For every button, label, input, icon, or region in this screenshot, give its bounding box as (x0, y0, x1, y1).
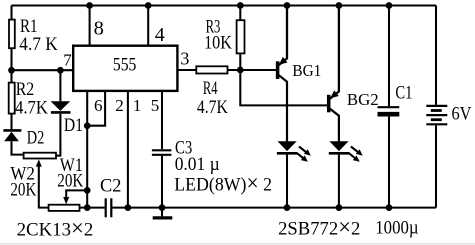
junction pin4 on top rail (145, 2, 152, 9)
transistor BG1 emitter arrow (PNP) (279, 57, 288, 65)
wire R3 bottom to node A (239, 53, 241, 70)
svg-text:6V: 6V (452, 105, 473, 125)
resistor R4 (196, 66, 227, 73)
wire top supply rail (12, 4, 437, 6)
capacitor C2 plate right (110, 198, 112, 217)
battery B1 bar long 1 (426, 105, 447, 107)
wire pin 5 to C3 (161, 91, 163, 149)
transistor BG2 emitter arrow (PNP) (330, 90, 339, 98)
wire pin 7 horizontal (12, 69, 74, 71)
capacitor C1 plate bottom (thick) (378, 112, 400, 117)
ground stub (161, 208, 163, 217)
potentiometer W2 wiper arrowhead (36, 159, 42, 166)
junction C1 bottom rail (386, 204, 393, 211)
potentiometer W2 body (24, 153, 56, 159)
svg-text:R2: R2 (16, 80, 35, 100)
diode D1 triangle (51, 101, 71, 111)
svg-text:5: 5 (151, 96, 160, 115)
LED2 cathode bar (329, 152, 349, 155)
LED2 light arrow upper (351, 147, 359, 153)
resistor R2 (9, 83, 15, 114)
svg-text:7: 7 (63, 51, 72, 70)
wire C1 bottom (388, 117, 390, 208)
svg-text:20K: 20K (10, 181, 37, 201)
svg-text:2SB772×2: 2SB772×2 (278, 215, 360, 240)
wire pin 3 to R4 (177, 69, 196, 71)
junction ground node (159, 204, 166, 211)
junction R3 on top rail (237, 2, 244, 9)
junction node A (237, 67, 244, 74)
wire pin 8 (89, 6, 91, 46)
junction LED2 bottom rail (336, 204, 343, 211)
transistor BG2 emitter lead to top rail (329, 6, 339, 100)
potentiometer W1 body (49, 205, 80, 211)
wire D1 cathode to W2 right terminal (56, 114, 60, 156)
diode D1 cathode bar (51, 111, 71, 114)
transistor BG2 collector lead down (329, 108, 339, 141)
IC U1 555 timer body (73, 46, 177, 91)
wire R1 to R2 (10, 48, 12, 82)
svg-text:4.7K: 4.7K (197, 98, 228, 118)
wire pin 6 vertical (86, 91, 88, 208)
junction pin8 on top rail (86, 2, 93, 9)
junction BG2 emitter on top rail (336, 2, 343, 9)
ground bar (153, 216, 173, 219)
svg-text:0.01 µ: 0.01 µ (175, 154, 220, 175)
battery B1 bar long 2 (426, 114, 447, 116)
svg-text:4.7 K: 4.7 K (19, 35, 58, 55)
wire LED1 cathode to bottom rail (286, 155, 288, 208)
battery B1 bar long 3 (426, 123, 447, 125)
LED1 triangle (278, 141, 297, 151)
wire left rail top (to R1) (10, 6, 12, 20)
LED1 light arrow lower (297, 153, 304, 159)
junction left rail pin7 (8, 67, 15, 74)
junction C1 on top rail (386, 2, 393, 9)
wire pin7 node down to D1 (59, 70, 61, 101)
svg-text:1000µ: 1000µ (375, 218, 418, 239)
svg-text:6: 6 (94, 96, 103, 115)
junction pin6 line bottom rail (84, 204, 91, 211)
battery B1 bar short 1 (431, 109, 442, 112)
capacitor C3 plate bottom (152, 154, 172, 156)
junction W1 wiper takeoff (84, 187, 91, 194)
wire right rail upper (battery +) (435, 6, 437, 105)
svg-text:4.7K: 4.7K (15, 98, 49, 118)
svg-text:10K: 10K (204, 34, 232, 54)
transistor BG2 base bar (327, 95, 331, 113)
capacitor C1 plate top (thin) (378, 106, 400, 108)
LED2 triangle (329, 141, 348, 151)
resistor R1 (9, 20, 15, 49)
svg-text:BG1: BG1 (292, 61, 321, 80)
wire bottom rail left segment (80, 207, 106, 209)
wire C3 to bottom rail (161, 156, 163, 208)
junction pin2-pin6 (84, 122, 91, 129)
junction LED1 bottom rail (284, 204, 291, 211)
wire pin 1 vertical (127, 91, 129, 208)
wire R2 to D2 (10, 114, 12, 130)
capacitor C2 plate left (105, 198, 107, 217)
LED1 light arrow upper (299, 147, 307, 153)
junction D1 branch on pin7 wire (57, 67, 64, 74)
svg-text:BG2: BG2 (347, 90, 379, 109)
wire C1 top (388, 6, 390, 107)
wire pin 2 jumper to pin 6 (87, 91, 105, 126)
transistor BG1 collector lead down (278, 74, 287, 141)
svg-text:4: 4 (155, 24, 165, 46)
battery B1 bar short 2 (431, 118, 442, 121)
svg-text:R4: R4 (203, 79, 218, 99)
svg-text:2CK13×2: 2CK13×2 (17, 215, 94, 240)
svg-text:8: 8 (94, 18, 104, 40)
svg-text:C1: C1 (395, 83, 412, 104)
svg-text:LED(8W)× 2: LED(8W)× 2 (174, 170, 272, 195)
svg-text:1: 1 (133, 96, 142, 115)
diode D2 cathode bar (3, 129, 21, 132)
svg-text:D2: D2 (27, 129, 45, 149)
wire LED2 cathode to bottom rail (338, 155, 340, 208)
scan artifact bottom edge (0, 243, 475, 245)
junction pin1 bottom rail (125, 204, 132, 211)
wire right rail lower (battery -) (435, 125, 437, 207)
svg-text:R1: R1 (20, 17, 38, 37)
svg-text:D1: D1 (64, 116, 83, 136)
diode D2 triangle (4, 132, 19, 142)
wire node A down and across to BG2 base (240, 70, 327, 105)
wire R4 to BG1 base (228, 69, 277, 71)
junction BG1 emitter on top rail (284, 2, 291, 9)
wire pin 4 (147, 6, 149, 46)
svg-text:555: 555 (113, 56, 136, 76)
transistor BG1 emitter lead to top rail (278, 6, 287, 66)
svg-text:3: 3 (180, 49, 189, 69)
svg-text:C2: C2 (100, 177, 121, 197)
resistor R3 (237, 20, 245, 53)
LED2 light arrow lower (348, 153, 355, 159)
potentiometer W1 wiper arrowhead (63, 197, 69, 204)
wire W1 wiper takeoff from pin6 line (66, 190, 87, 198)
wire bottom rail right segment (111, 207, 436, 209)
wire D2 to W2 left terminal (12, 141, 24, 154)
transistor BG1 base bar (276, 61, 280, 79)
wire W2 wiper stem down to W1 left terminal (39, 164, 49, 207)
capacitor C3 plate top (152, 149, 172, 151)
LED1 cathode bar (277, 152, 297, 155)
svg-text:20K: 20K (57, 172, 84, 192)
svg-text:2: 2 (115, 96, 124, 115)
wire R3 top (239, 6, 241, 21)
